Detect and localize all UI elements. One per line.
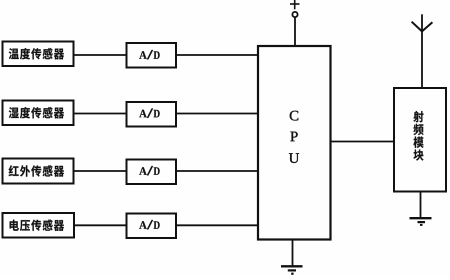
ground bar 3 (CPU) <box>291 273 293 275</box>
antenna mast <box>421 14 423 88</box>
wire CPU to ground <box>292 239 294 266</box>
label A/D U3 <box>139 166 159 175</box>
A/D converter U4 <box>127 214 177 239</box>
label A/D U4 <box>139 220 159 229</box>
wire A/D3 to CPU <box>176 170 258 172</box>
label CPU <box>289 111 299 163</box>
label A/D U2 <box>139 109 159 118</box>
wire A/D4 to CPU <box>176 224 258 226</box>
power terminal circle <box>292 12 297 17</box>
wire sensor4 to A/D4 <box>74 224 127 226</box>
A/D converter U1 <box>127 43 177 68</box>
block 红外传感器 (infrared sensor) <box>3 159 74 184</box>
label 温度传感器 <box>9 48 64 59</box>
label 红外传感器 <box>9 165 64 176</box>
wire A/D1 to CPU <box>176 54 258 56</box>
wire sensor1 to A/D1 <box>74 54 127 56</box>
ground bar 3 (RF) <box>420 224 423 226</box>
power + symbol vertical <box>294 0 296 9</box>
A/D converter U2 <box>127 102 177 127</box>
wire CPU to RF module <box>330 141 394 143</box>
block 温度传感器 (temperature sensor) <box>3 42 74 67</box>
ground bar 2 (CPU) <box>288 269 296 271</box>
power + symbol horizontal <box>290 3 300 5</box>
A/D converter U3 <box>127 160 177 185</box>
antenna left arm <box>412 22 422 32</box>
ground bar 1 (CPU) <box>281 265 303 267</box>
wire RF module to ground <box>420 191 422 218</box>
ground bar 1 (RF) <box>410 217 432 219</box>
antenna right arm <box>422 22 432 31</box>
block 湿度传感器 (humidity sensor) <box>3 101 74 126</box>
wire power to CPU <box>294 17 296 46</box>
CPU block U5 <box>258 46 331 240</box>
label 湿度传感器 <box>9 107 64 118</box>
wire sensor2 to A/D2 <box>74 113 127 115</box>
wire sensor3 to A/D3 <box>74 170 127 172</box>
block 电压传感器 (voltage sensor) <box>3 213 75 238</box>
label A/D U1 <box>139 50 159 59</box>
label 射频模块 <box>413 111 423 161</box>
RF module block 射频模块 <box>394 88 446 192</box>
label 电压传感器 <box>10 220 64 231</box>
ground bar 2 (RF) <box>418 221 426 223</box>
wire A/D2 to CPU <box>176 113 258 115</box>
